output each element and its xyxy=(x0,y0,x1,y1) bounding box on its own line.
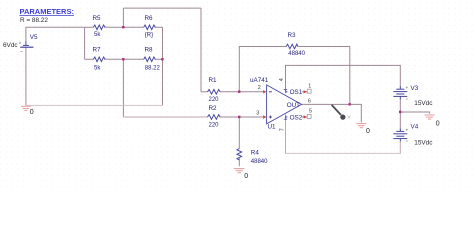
svg-text:OS2: OS2 xyxy=(290,114,303,121)
svg-text:OS1: OS1 xyxy=(290,89,303,96)
wire R1 right lead xyxy=(220,91,239,93)
ground 3 (supply mid) xyxy=(425,115,435,119)
junction pin2 node xyxy=(238,91,240,93)
svg-text:7: 7 xyxy=(279,128,285,131)
resistor R2 xyxy=(208,115,221,120)
svg-text:R6: R6 xyxy=(145,15,154,22)
resistor R3 xyxy=(286,44,298,49)
svg-text:U1: U1 xyxy=(268,124,277,131)
OS1 pin xyxy=(285,90,288,93)
wire R3 left leg xyxy=(239,47,286,92)
svg-text:0: 0 xyxy=(30,109,34,116)
svg-text:OUT: OUT xyxy=(287,102,300,109)
wire V5 top to R5 left rail xyxy=(26,27,85,41)
wire R5 left lead xyxy=(85,26,94,28)
svg-text:V5: V5 xyxy=(30,34,38,41)
resistor R7 xyxy=(93,57,105,62)
svg-text:V3: V3 xyxy=(411,85,419,92)
wire pin7 leg xyxy=(285,115,287,154)
junction pin3 node xyxy=(238,116,240,118)
pin 4 tick xyxy=(284,88,287,90)
OS2 unconnected box xyxy=(307,114,311,118)
voltage probe xyxy=(332,105,351,120)
source V3 xyxy=(393,86,407,100)
svg-text:1: 1 xyxy=(308,84,311,90)
wire R6 right lead xyxy=(155,26,163,28)
V5 plus mark xyxy=(19,42,21,44)
svg-text:R3: R3 xyxy=(288,32,297,39)
resistor R5 xyxy=(93,25,105,30)
junction node B xyxy=(122,26,124,28)
ground 2 (output) xyxy=(356,124,366,128)
wire V4 bottom leg xyxy=(399,142,401,154)
junction node C xyxy=(122,58,124,60)
wire R3 right leg xyxy=(298,47,350,105)
OS1 unconnected box xyxy=(307,89,311,93)
source V5 xyxy=(20,41,33,47)
op-amp U1 triangle xyxy=(267,85,302,124)
svg-text:{R}: {R} xyxy=(145,33,153,39)
wire ground rail (faint) xyxy=(26,104,163,106)
wire V3 bottom to mid node xyxy=(399,100,401,129)
OS2 red arrow xyxy=(304,115,307,118)
wire left rail down to R7 xyxy=(84,27,86,59)
V5 minus mark xyxy=(21,51,23,53)
wire node B up to top xyxy=(122,8,124,27)
wire R6 right down to R8 right xyxy=(162,27,164,59)
wire mid node to ground 3 xyxy=(400,112,429,114)
svg-text:R4: R4 xyxy=(251,149,260,156)
wire R4 top lead xyxy=(238,117,240,149)
svg-text:0: 0 xyxy=(244,173,248,180)
wire down to R1 xyxy=(200,8,202,92)
wire ground rail to R8 right (vertical part) xyxy=(162,59,164,105)
pin2 red arrow xyxy=(263,90,266,93)
resistor R6 xyxy=(144,25,156,30)
wire top run xyxy=(123,7,201,9)
wire R4 bottom lead xyxy=(238,158,240,166)
grid dots xyxy=(0,0,474,187)
wire V5 bottom to ground rail xyxy=(25,47,27,105)
wire R7 left lead xyxy=(85,58,94,60)
junction out node xyxy=(349,103,351,105)
svg-text:88.22: 88.22 xyxy=(145,66,161,72)
wire R7 right lead xyxy=(104,58,123,60)
wire R8 right lead xyxy=(155,58,163,60)
svg-text:4: 4 xyxy=(279,78,285,81)
svg-text:V: V xyxy=(348,114,351,119)
svg-text:0: 0 xyxy=(366,128,370,135)
svg-text:R = 88.22: R = 88.22 xyxy=(20,17,48,24)
wire node C down to R2 row xyxy=(122,59,124,117)
junction node R8 right xyxy=(161,58,163,60)
svg-text:15Vdc: 15Vdc xyxy=(414,139,433,146)
svg-text:220: 220 xyxy=(209,97,220,103)
ground 4 (R4 bottom) xyxy=(234,169,245,173)
wire R1 node to pin2 xyxy=(239,91,264,93)
svg-text:PARAMETERS:: PARAMETERS: xyxy=(20,7,74,16)
svg-text:48840: 48840 xyxy=(288,51,305,57)
op-amp minus sign xyxy=(269,91,272,93)
svg-text:R1: R1 xyxy=(209,77,218,84)
ground 1 (V5 bottom) xyxy=(21,106,31,110)
svg-text:2: 2 xyxy=(258,85,261,91)
wire R6 left lead xyxy=(123,26,143,28)
resistor R1 xyxy=(208,90,221,95)
svg-text:V4: V4 xyxy=(411,123,419,130)
pin 7 tick xyxy=(284,118,287,120)
pin3 red arrow xyxy=(263,115,266,118)
wire R2 node to pin3 xyxy=(239,116,264,118)
svg-text:R7: R7 xyxy=(93,47,102,54)
resistor R4 (vertical) xyxy=(237,149,242,160)
svg-text:220: 220 xyxy=(209,123,220,129)
op-amp plus sign xyxy=(269,116,272,119)
svg-text:5: 5 xyxy=(309,109,312,115)
svg-text:15Vdc: 15Vdc xyxy=(414,100,433,107)
wire R8 left lead xyxy=(123,58,143,60)
svg-text:6Vdc: 6Vdc xyxy=(3,42,18,49)
svg-text:R8: R8 xyxy=(145,47,154,54)
wire op-amp out xyxy=(302,103,350,105)
svg-text:0: 0 xyxy=(436,120,440,127)
svg-text:3: 3 xyxy=(256,110,259,116)
svg-text:R5: R5 xyxy=(93,15,102,22)
wire R5 right lead to node xyxy=(104,26,123,28)
svg-text:6: 6 xyxy=(308,98,311,104)
wire pin4 to V3 xyxy=(286,65,401,91)
OS1 red arrow xyxy=(304,90,307,93)
svg-text:5k: 5k xyxy=(94,32,101,38)
OS2 pin xyxy=(285,116,288,119)
svg-text:5k: 5k xyxy=(94,66,101,72)
junction supply mid node xyxy=(399,111,401,113)
svg-text:48840: 48840 xyxy=(251,159,268,165)
wire R2 right lead xyxy=(220,116,239,118)
source V4 xyxy=(393,129,407,142)
wire out node to ground 2 xyxy=(350,104,362,122)
wire R1 left lead xyxy=(201,91,208,93)
svg-text:uA741: uA741 xyxy=(250,77,269,84)
wire pin7 bottom run (faint) xyxy=(286,152,401,154)
resistor R8 xyxy=(144,57,156,62)
wire R2 left long lead xyxy=(123,116,207,118)
svg-text:R2: R2 xyxy=(209,105,218,112)
